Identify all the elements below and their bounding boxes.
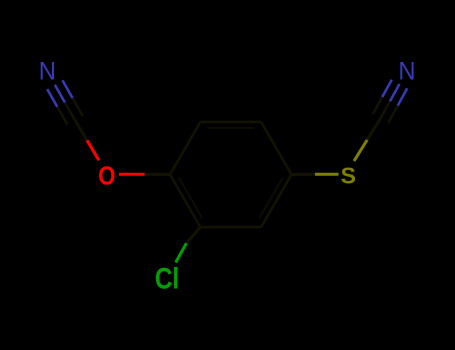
svg-text:Cl: Cl	[155, 262, 179, 295]
svg-text:S: S	[341, 163, 356, 189]
svg-text:N: N	[39, 58, 56, 86]
svg-text:N: N	[398, 58, 415, 86]
svg-text:O: O	[98, 162, 115, 191]
